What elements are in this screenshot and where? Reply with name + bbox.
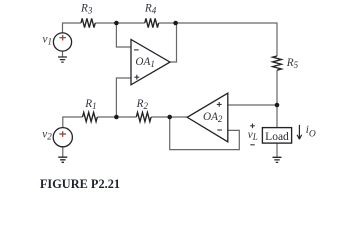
- wire node E to OA2 output tip: [170, 116, 187, 118]
- junction node C (R1/R2/OA1 noninverting): [114, 115, 119, 120]
- svg-text:FIGURE P2.21: FIGURE P2.21: [40, 177, 120, 191]
- wire R2 to node E: [151, 116, 170, 118]
- load box: [262, 128, 291, 144]
- wire node A to R4: [116, 22, 144, 24]
- load voltage vL minus mark: [250, 144, 254, 146]
- ground below v2: [58, 157, 67, 162]
- svg-text:Load: Load: [265, 131, 289, 143]
- svg-text:R3: R3: [80, 3, 93, 16]
- voltage source v1 circle: [53, 33, 71, 51]
- wire OA2 inverting input feedback loop to node E: [170, 117, 240, 150]
- wire node A down to OA1 inverting input: [116, 23, 131, 47]
- wire v1 to R3 (top rail left): [63, 23, 82, 33]
- svg-text:iO: iO: [306, 124, 316, 140]
- junction node A (R3/R4/OA1 inverting): [114, 21, 119, 26]
- op-amp OA1 minus mark: [134, 49, 139, 51]
- svg-text:OA1: OA1: [135, 56, 154, 69]
- svg-text:R4: R4: [144, 3, 157, 16]
- wire R4 to node B: [159, 22, 176, 24]
- svg-text:v2: v2: [42, 129, 52, 142]
- wire v2 to ground: [62, 147, 64, 158]
- resistor R4: [145, 18, 159, 27]
- svg-text:R5: R5: [286, 57, 299, 70]
- svg-text:R2: R2: [136, 98, 149, 111]
- svg-text:OA2: OA2: [203, 111, 223, 124]
- wire R1 to node C: [97, 116, 116, 118]
- op-amp OA2 triangle (mirrored, output to the left): [187, 93, 228, 142]
- wire R5 to node D: [276, 70, 278, 105]
- junction node D (R5/Load/OA2 noninverting): [275, 103, 280, 108]
- wire OA2 noninverting input to node D: [228, 104, 277, 106]
- svg-text:R1: R1: [84, 98, 96, 111]
- output current iO arrow: [297, 125, 302, 139]
- junction node E (R2/OA2 output/feedback): [167, 115, 172, 120]
- op-amp OA1 plus mark: [134, 75, 139, 80]
- ground below Load: [273, 157, 282, 162]
- voltage source v2 plus sign: [59, 131, 66, 137]
- resistor R3: [81, 18, 95, 27]
- wire v1 to ground: [62, 51, 64, 57]
- wire OA1 noninverting input down to node C: [116, 78, 131, 117]
- wire node C to R2: [116, 116, 136, 118]
- resistor R2: [136, 112, 151, 121]
- resistor R1: [83, 112, 98, 121]
- op-amp OA2 plus mark: [217, 102, 222, 107]
- wire node D to Load: [276, 105, 278, 128]
- wire node B to right corner and down to R5: [176, 23, 277, 56]
- junction node B (R4/OA1 output/top rail): [173, 21, 178, 26]
- wire Load to ground: [276, 143, 278, 157]
- wire v2 to R1 (middle rail left): [63, 117, 83, 128]
- svg-text:vL: vL: [248, 129, 258, 142]
- voltage source v1 plus sign: [59, 35, 66, 41]
- wire OA1 output up to node B: [170, 23, 177, 62]
- load voltage vL plus mark: [250, 124, 255, 129]
- op-amp OA1 triangle: [131, 40, 170, 85]
- ground below v1: [58, 57, 67, 62]
- voltage source v2 circle: [53, 128, 72, 147]
- resistor R5: [273, 56, 282, 70]
- op-amp OA2 minus mark: [217, 129, 222, 131]
- svg-text:v1: v1: [43, 33, 52, 46]
- wire R3 to node A: [95, 22, 116, 24]
